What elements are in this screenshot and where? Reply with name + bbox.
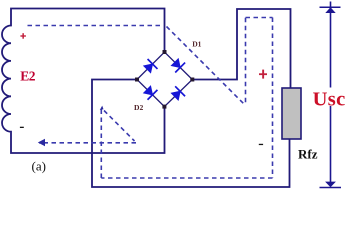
svg-text:(a): (a) bbox=[32, 158, 46, 173]
svg-text:E2: E2 bbox=[20, 68, 36, 83]
svg-text:Usc: Usc bbox=[313, 89, 346, 111]
svg-text:D2: D2 bbox=[134, 103, 143, 112]
svg-text:D1: D1 bbox=[192, 39, 201, 48]
svg-text:Rfz: Rfz bbox=[298, 147, 318, 162]
